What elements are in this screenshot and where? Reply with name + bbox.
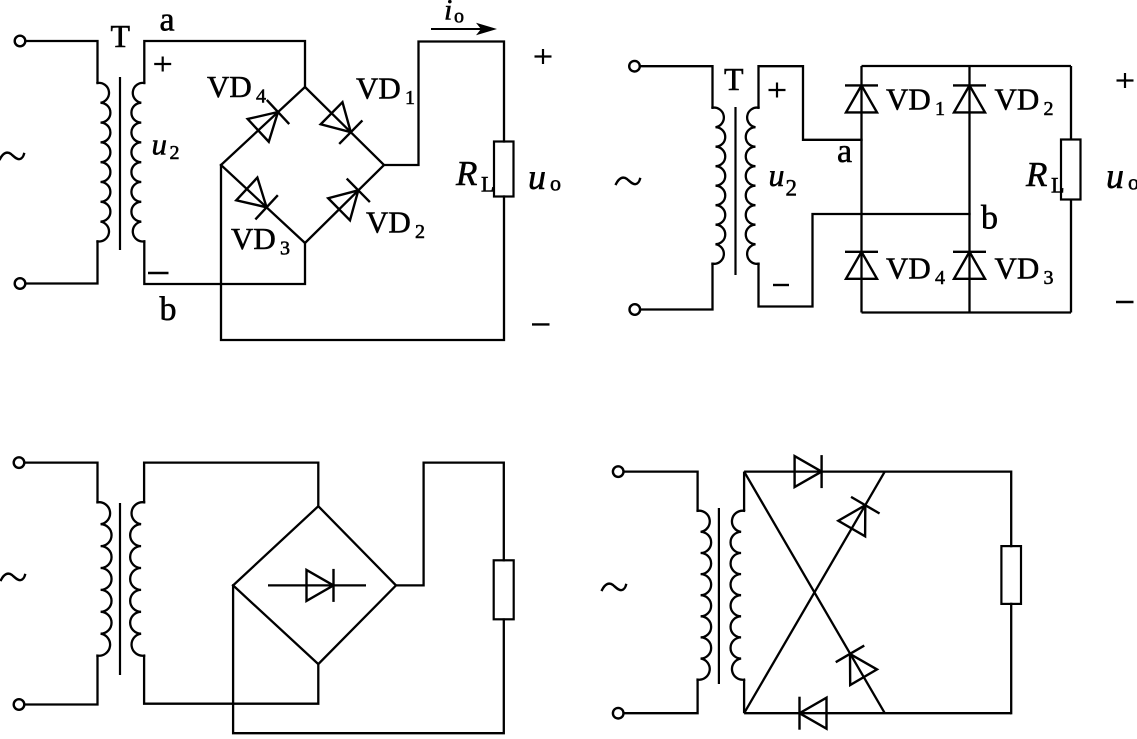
circuit4 AC source tilde (602, 584, 626, 591)
transformer T1 secondary winding (131, 83, 144, 242)
svg-text:u: u (1106, 156, 1124, 196)
wire: load bottom to rail (1070, 200, 1072, 313)
svg-text:o: o (550, 171, 561, 196)
polarity − output (1116, 301, 1134, 303)
polarity + output (535, 49, 552, 64)
diode diagonal 2 (837, 497, 879, 537)
transformer T3 secondary winding (130, 502, 144, 656)
wire: secondary − step to node b (759, 214, 970, 307)
svg-text:VD: VD (995, 251, 1040, 286)
wire: bottom rail (744, 712, 1011, 714)
wire: top + rail (862, 65, 1072, 67)
current io arrowhead (476, 23, 497, 35)
svg-text:R: R (1025, 155, 1047, 194)
circuit1 AC source tilde (0, 153, 24, 160)
svg-text:VD: VD (886, 251, 931, 286)
transformer T3 primary winding (98, 502, 112, 656)
circuit3 input terminal bottom (14, 699, 25, 710)
wire: right bridge column (968, 66, 970, 313)
svg-text:2: 2 (170, 142, 180, 164)
circuit2 input terminal top (629, 61, 640, 72)
circuit3 AC source tilde (1, 574, 25, 581)
wire: bridge + to load top (396, 463, 504, 586)
circuit2 input terminal bottom (630, 304, 641, 315)
svg-text:VD: VD (366, 205, 411, 240)
bridge symbol diode (307, 569, 334, 602)
wire: diagonal top-left to bottom-right (744, 472, 885, 714)
polarity + secondary (769, 83, 786, 98)
diode VD4 (845, 252, 878, 279)
svg-text:3: 3 (1044, 267, 1054, 289)
svg-text:a: a (160, 2, 175, 39)
svg-text:T: T (111, 18, 131, 54)
resistor load (1001, 546, 1021, 604)
transformer T4 primary winding (698, 511, 712, 680)
svg-text:i: i (444, 0, 452, 27)
diode VD2 (327, 179, 369, 221)
circuit1 input terminal top (15, 36, 26, 47)
wire: rail to load top (1070, 66, 1072, 140)
transformer T3 core (119, 503, 121, 675)
wire: secondary + to node a / bridge top (144, 41, 305, 87)
resistor load (494, 560, 514, 619)
wire: secondary + lead up (743, 472, 745, 511)
wire: secondary − lead down (743, 680, 745, 714)
wire: secondary − to bridge bottom (144, 656, 318, 704)
transformer T1 primary winding (98, 83, 111, 242)
svg-text:3: 3 (280, 238, 290, 260)
wire: primary to bottom terminal (25, 656, 98, 705)
circuit2 AC source tilde (616, 178, 640, 185)
wire: left bridge column (860, 66, 862, 313)
svg-text:L: L (481, 172, 494, 197)
bridge symbol inner lead (268, 584, 366, 586)
transformer T1 core (119, 77, 121, 250)
diode VD3 (236, 177, 278, 220)
wire: bridge + output to load top (384, 42, 504, 166)
wire: top terminal to primary (26, 41, 98, 83)
transformer T2 primary winding (713, 108, 726, 264)
svg-text:T: T (724, 61, 744, 97)
resistor RL load (1061, 140, 1081, 200)
svg-text:u: u (769, 157, 785, 193)
svg-text:a: a (837, 133, 852, 170)
current io arrow line (431, 28, 486, 30)
polarity + secondary (154, 57, 171, 72)
transformer T2 core (734, 107, 736, 275)
wire: primary to bottom terminal (624, 680, 698, 714)
bridge block diamond (233, 506, 396, 664)
wire: secondary + to bridge top (144, 463, 318, 507)
svg-text:b: b (981, 200, 998, 237)
wire: primary to bottom terminal (641, 264, 713, 310)
circuit1 input terminal bottom (15, 278, 26, 289)
svg-text:u: u (152, 127, 168, 162)
wire: bridge − output to load bottom (221, 165, 504, 340)
diode bottom branch (800, 697, 827, 730)
wire: top rail to load (1010, 472, 1012, 546)
circuit3 input terminal top (14, 457, 25, 468)
svg-text:VD: VD (231, 221, 276, 256)
diode diagonal 1 (836, 646, 878, 686)
svg-text:VD: VD (886, 82, 931, 117)
polarity − secondary (773, 284, 789, 286)
transformer T4 core (718, 508, 720, 684)
diode VD4 (247, 100, 289, 143)
diode VD3 (953, 252, 986, 279)
wire: top terminal to primary (25, 463, 98, 503)
wire: top rail (744, 470, 1011, 472)
circuit4 input terminal top (613, 466, 624, 477)
svg-text:o: o (1128, 170, 1137, 195)
svg-text:R: R (455, 154, 477, 193)
svg-text:VD: VD (207, 69, 252, 104)
wire: secondary + step to node a (759, 66, 862, 140)
wire: primary to bottom terminal (26, 241, 98, 283)
svg-text:o: o (454, 6, 464, 28)
svg-text:2: 2 (1044, 98, 1054, 120)
diode VD1 (320, 101, 362, 143)
wire: top terminal to primary (624, 472, 698, 511)
polarity − secondary (148, 272, 169, 274)
svg-text:b: b (160, 291, 177, 328)
svg-text:VD: VD (995, 82, 1040, 117)
diode top branch (795, 455, 822, 488)
svg-text:4: 4 (935, 267, 945, 289)
svg-text:1: 1 (405, 87, 415, 109)
wire: bottom − rail (862, 311, 1072, 313)
wire: diagonal bottom-left to top-right (744, 472, 885, 714)
wire: load to bottom rail (1010, 604, 1012, 713)
transformer T4 secondary winding (731, 511, 745, 680)
svg-text:2: 2 (415, 221, 425, 243)
circuit4 input terminal bottom (613, 708, 624, 719)
svg-text:u: u (528, 157, 546, 197)
polarity + output (1117, 73, 1134, 88)
svg-text:4: 4 (256, 86, 266, 108)
bridge diamond wires (221, 87, 384, 243)
diode VD1 (845, 85, 878, 112)
resistor RL load (494, 142, 514, 197)
polarity − output (532, 323, 550, 325)
svg-text:L: L (1051, 173, 1064, 198)
wire: secondary − to node b / bridge bottom (144, 241, 305, 284)
diode VD2 (953, 85, 986, 112)
svg-text:VD: VD (356, 71, 401, 106)
wire: bridge − to load bottom (233, 585, 504, 733)
wire: top terminal to primary (640, 66, 712, 108)
svg-text:2: 2 (786, 175, 798, 200)
svg-text:1: 1 (935, 98, 945, 120)
transformer T2 secondary winding (746, 108, 759, 264)
